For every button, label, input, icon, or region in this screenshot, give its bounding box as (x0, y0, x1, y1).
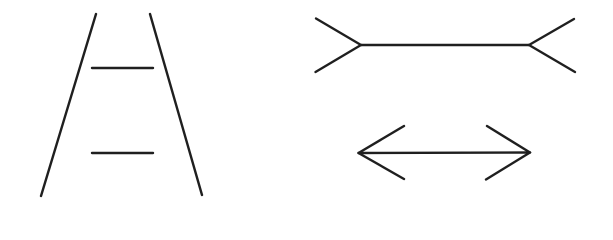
Muller-Lyer top left lower fin (316, 45, 362, 72)
Muller-Lyer top left upper fin (316, 19, 361, 46)
Muller-Lyer top shaft (fins outward) (361, 44, 529, 46)
Ponzo right converging line (150, 14, 202, 195)
Muller-Lyer top right upper fin (529, 19, 574, 45)
Ponzo upper horizontal bar (92, 67, 153, 69)
Ponzo lower horizontal bar (92, 152, 153, 154)
Ponzo left converging line (41, 14, 96, 196)
Muller-Lyer top right lower fin (529, 45, 575, 72)
Muller-Lyer bottom left upper barb (359, 126, 405, 153)
Muller-Lyer bottom left lower barb (359, 153, 405, 179)
Muller-Lyer bottom right lower barb (486, 153, 530, 180)
Muller-Lyer bottom shaft (double-headed arrow) (359, 151, 531, 154)
Muller-Lyer bottom right upper barb (487, 126, 530, 153)
